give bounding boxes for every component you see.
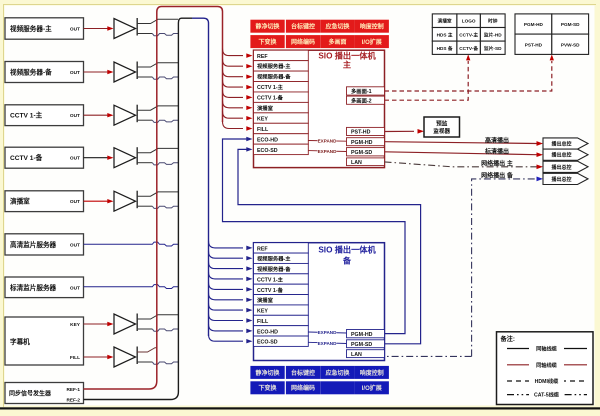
svg-text:视频服务器-主: 视频服务器-主: [10, 24, 52, 33]
svg-text:OUT: OUT: [70, 27, 80, 33]
source box 同步信号发生器: [5, 383, 84, 404]
svg-text:PGM-HD: PGM-HD: [351, 332, 373, 338]
svg-text:I/O扩展: I/O扩展: [362, 38, 382, 46]
svg-text:CCTV 1-备: CCTV 1-备: [257, 286, 284, 294]
svg-text:HDS 备: HDS 备: [437, 45, 453, 52]
legend CAT-5线缆: [507, 394, 587, 396]
main feature cell 应急切换: [320, 20, 354, 33]
backup port FILL: [254, 315, 309, 325]
wire DA3 upper branch to black trunk: [137, 106, 178, 110]
main port KEY: [254, 113, 309, 123]
preview monitor box: [424, 117, 460, 137]
svg-text:网络播出 备: 网络播出 备: [481, 172, 514, 180]
main port PST-HD: [347, 127, 385, 135]
svg-text:LAN: LAN: [351, 160, 362, 166]
master control flag 3 播出总控: [543, 161, 588, 172]
svg-text:网络编码: 网络编码: [291, 384, 315, 392]
main feature cell 网络编码: [286, 35, 320, 48]
svg-text:播出总控: 播出总控: [551, 176, 571, 183]
arrow into DA7: [84, 356, 110, 358]
monitor wall table 2 (PGM/PST): [515, 14, 552, 34]
wire backup PGM-SD to main ECO-SD: [238, 149, 421, 343]
svg-text:KEY: KEY: [257, 309, 268, 315]
arrow into DA2: [84, 71, 110, 73]
svg-text:应急切换: 应急切换: [325, 369, 350, 377]
svg-text:CCTV 1-主: CCTV 1-主: [10, 111, 43, 120]
svg-text:CCTV 1-备: CCTV 1-备: [257, 94, 284, 102]
svg-text:监片-HD: 监片-HD: [484, 31, 502, 38]
distribution amp DA7: [114, 347, 136, 367]
wire DA6 upper branch to black trunk: [137, 315, 178, 319]
distribution amp DA2: [114, 62, 136, 82]
wire DA6 lower branch to black trunk: [137, 328, 152, 330]
wire 标清播出: [385, 152, 537, 155]
svg-text:PGM-SD: PGM-SD: [351, 150, 372, 156]
svg-text:台标键控: 台标键控: [291, 369, 315, 377]
svg-text:EXPAND: EXPAND: [318, 149, 337, 154]
svg-text:EXPAND: EXPAND: [318, 139, 337, 144]
wire fan to backup port row 4: [209, 272, 244, 279]
svg-text:下变换: 下变换: [259, 38, 278, 46]
svg-text:ECO-SD: ECO-SD: [257, 340, 278, 346]
wire DA7 upper branch to red trunk: [137, 348, 157, 352]
wire fan to main port row 1: [223, 49, 244, 56]
wire fan to backup port row 5: [209, 282, 244, 289]
svg-text:主: 主: [343, 60, 351, 70]
wire REF-1 red trunk loop feeding main SIO: [84, 7, 223, 390]
wire fan to backup port row 10: [209, 334, 244, 341]
source box 视频服务器-主: [5, 18, 84, 39]
svg-text:多画面: 多画面: [328, 38, 346, 46]
svg-text:CCTV 1-主: CCTV 1-主: [257, 83, 284, 91]
wire 监片服务器 OUT row: [84, 242, 179, 246]
svg-text:PST-HD: PST-HD: [351, 130, 371, 136]
wire blue trunk feeding backup SIO: [192, 18, 209, 336]
wire fan to main port row 8: [223, 122, 244, 129]
main port PGM-HD: [347, 138, 385, 146]
main port 视频服务器-主: [254, 61, 309, 71]
monitor wall table 1 (sources): [432, 14, 457, 28]
svg-text:监视器: 监视器: [433, 127, 450, 135]
distribution amp DA5: [114, 191, 136, 211]
wire 监片服务器 OUT row: [84, 285, 179, 289]
wire DA2 lower branch to black trunk: [137, 76, 152, 78]
wire DA1 lower branch to black trunk: [137, 33, 152, 35]
svg-text:网络编码: 网络编码: [291, 38, 315, 46]
wire 多画面-2 dashed to source monitor table: [385, 61, 469, 100]
wire fan to main port row 6: [223, 101, 244, 108]
backup port 视频服务器-主: [254, 253, 309, 263]
SIO backup unit box: [254, 243, 385, 361]
backup port ECO-SD: [254, 336, 309, 346]
svg-text:OUT: OUT: [70, 199, 80, 205]
svg-text:PGM-SD: PGM-SD: [351, 342, 372, 348]
svg-text:同轴线缆: 同轴线缆: [536, 345, 558, 353]
legend 同轴线缆 black: [507, 348, 587, 350]
wire 高清播出: [385, 142, 537, 144]
source box 演播室: [5, 191, 84, 212]
backup feature cell 网络编码: [286, 381, 320, 394]
svg-text:I/O扩展: I/O扩展: [362, 384, 382, 392]
svg-text:SIO 播出一体机: SIO 播出一体机: [318, 245, 376, 255]
main port ECO-SD: [254, 144, 309, 154]
distribution amp DA6: [114, 314, 136, 334]
svg-text:网络播出 主: 网络播出 主: [481, 160, 513, 168]
svg-text:视频服务器-主: 视频服务器-主: [257, 255, 291, 263]
svg-text:台标键控: 台标键控: [291, 23, 315, 31]
svg-text:PGM-HD: PGM-HD: [524, 22, 544, 27]
arrow into DA6: [84, 323, 110, 325]
svg-text:播出总控: 播出总控: [551, 141, 571, 148]
distribution amp DA4: [114, 148, 136, 168]
backup feature cell 应急切换: [320, 366, 354, 379]
source box 视频服务器-备: [5, 62, 84, 83]
svg-text:视频服务器-备: 视频服务器-备: [257, 73, 291, 81]
main feature cell 多画面: [320, 35, 354, 48]
svg-text:ECO-SD: ECO-SD: [257, 148, 278, 154]
backup port LAN: [347, 350, 385, 358]
backup port ECO-HD: [254, 326, 309, 336]
wire backup PGM-HD to main ECO-HD: [223, 139, 406, 334]
svg-text:静净切换: 静净切换: [256, 369, 281, 377]
wire 网络播出 备: [385, 179, 537, 357]
wire fan to main port row 7: [223, 111, 244, 118]
backup port PGM-HD: [347, 330, 385, 338]
backup feature cell 台标键控: [286, 366, 320, 379]
svg-text:CCTV-主: CCTV-主: [459, 31, 478, 38]
wire fan to backup port row 6: [209, 293, 244, 300]
svg-text:FILL: FILL: [70, 355, 80, 361]
source box CCTV 1-主: [5, 105, 84, 126]
svg-text:静净切换: 静净切换: [256, 23, 281, 31]
svg-text:演播室: 演播室: [257, 296, 274, 304]
svg-text:HDS 主: HDS 主: [437, 31, 453, 38]
svg-text:EXPAND: EXPAND: [318, 330, 337, 335]
backup port CCTV 1-备: [254, 284, 309, 294]
main feature cell 静净切换: [250, 20, 284, 33]
main port REF: [254, 50, 309, 60]
svg-text:OUT: OUT: [70, 285, 80, 291]
main port CCTV 1-主: [254, 82, 309, 92]
wire fan to main port row 5: [223, 90, 244, 97]
svg-text:OUT: OUT: [70, 156, 80, 162]
svg-text:高清监片服务器: 高清监片服务器: [10, 240, 57, 249]
svg-text:HDMI线缆: HDMI线缆: [535, 377, 559, 385]
wire DA5 upper branch to black trunk: [137, 192, 178, 196]
source box 标清监片服务器: [5, 277, 84, 298]
svg-text:多画面-2: 多画面-2: [351, 96, 372, 104]
wire fan to main port row 2: [223, 59, 244, 66]
svg-text:REF: REF: [257, 54, 268, 60]
main port PGM-SD: [347, 148, 385, 156]
wire fan to backup port row 3: [209, 262, 244, 269]
EXPAND link backup ECO-HD: [308, 332, 346, 333]
EXPAND link main ECO-HD: [308, 140, 346, 143]
svg-text:备注:: 备注:: [500, 335, 515, 343]
svg-text:字幕机: 字幕机: [10, 337, 30, 346]
source box 高清监片服务器: [5, 234, 84, 255]
SIO main unit box: [254, 50, 385, 167]
backup port CCTV 1-主: [254, 274, 309, 284]
arrow into DA5: [84, 200, 110, 202]
svg-text:播出总控: 播出总控: [551, 152, 571, 159]
main feature cell 下变换: [250, 35, 284, 48]
svg-text:响度控制: 响度控制: [360, 23, 384, 31]
arrow into DA4: [84, 157, 110, 159]
svg-text:KEY: KEY: [70, 322, 81, 328]
main port ECO-HD: [254, 134, 309, 144]
wire fan to backup port row 1: [209, 241, 244, 248]
svg-text:FILL: FILL: [257, 127, 269, 133]
svg-text:PVW-SD: PVW-SD: [561, 42, 580, 47]
svg-text:监片-SD: 监片-SD: [484, 45, 502, 52]
main feature cell 台标键控: [286, 20, 320, 33]
wire fan to main port row 3: [223, 70, 244, 77]
backup port 视频服务器-备: [254, 263, 309, 273]
wire DA7 lower branch to black trunk: [137, 361, 152, 363]
svg-text:备: 备: [342, 256, 352, 266]
svg-text:SIO 播出一体机: SIO 播出一体机: [318, 51, 376, 61]
svg-text:PGM-SD: PGM-SD: [561, 22, 580, 27]
backup port PGM-SD: [347, 340, 385, 348]
main port 视频服务器-备: [254, 71, 309, 81]
main port 演播室: [254, 102, 309, 112]
svg-text:同步信号发生器: 同步信号发生器: [9, 389, 52, 397]
svg-text:PST-HD: PST-HD: [525, 42, 543, 47]
svg-text:CAT-5线缆: CAT-5线缆: [534, 391, 560, 399]
main feature cell I/O扩展: [355, 35, 389, 48]
wire PST-HD to preview monitor: [385, 130, 415, 132]
svg-text:CCTV 1-备: CCTV 1-备: [10, 153, 43, 162]
backup port KEY: [254, 305, 309, 315]
backup port 演播室: [254, 295, 309, 305]
svg-text:REF-1: REF-1: [66, 387, 80, 392]
backup port REF: [254, 243, 309, 253]
arrow into DA3: [84, 114, 110, 116]
bottom frame line: [0, 407, 600, 409]
svg-text:OUT: OUT: [70, 70, 80, 76]
svg-text:响度控制: 响度控制: [360, 369, 384, 377]
wire DA5 lower branch to black trunk: [137, 205, 152, 207]
wire fan to backup port row 2: [209, 251, 244, 258]
wire DA1 upper branch to black trunk: [137, 19, 178, 23]
svg-text:视频服务器-备: 视频服务器-备: [10, 68, 52, 77]
main port CCTV 1-备: [254, 92, 309, 102]
svg-text:LAN: LAN: [351, 352, 362, 358]
master control flag 1 播出总控: [543, 138, 588, 149]
svg-text:演播室: 演播室: [438, 18, 452, 25]
svg-text:演播室: 演播室: [10, 197, 30, 206]
master control flag 4 播出总控: [543, 173, 588, 184]
source box 字幕机: [5, 317, 84, 365]
arrow into DA1: [84, 28, 110, 30]
svg-text:PGM-HD: PGM-HD: [351, 140, 373, 146]
svg-text:EXPAND: EXPAND: [318, 341, 337, 346]
svg-text:多画面-1: 多画面-1: [351, 87, 372, 95]
main feature cell 响度控制: [355, 20, 389, 33]
svg-text:ECO-HD: ECO-HD: [257, 137, 278, 143]
wire DA4 upper branch to black trunk: [137, 148, 178, 152]
wire fan to backup port row 9: [209, 324, 244, 331]
svg-text:CCTV-备: CCTV-备: [459, 45, 478, 52]
wire 多画面-1 dashed to PGM monitor table: [385, 61, 552, 91]
backup feature cell 下变换: [250, 381, 284, 394]
svg-text:REF: REF: [257, 246, 268, 252]
wire DA4 lower branch to black trunk: [137, 162, 152, 164]
backup feature cell I/O扩展: [355, 381, 389, 394]
svg-text:视频服务器-主: 视频服务器-主: [257, 62, 291, 70]
main port FILL: [254, 123, 309, 133]
svg-text:FILL: FILL: [257, 319, 269, 325]
svg-text:CCTV 1-主: CCTV 1-主: [257, 275, 284, 283]
backup feature cell 静净切换: [250, 366, 284, 379]
svg-text:预监: 预监: [436, 120, 448, 128]
svg-text:OUT: OUT: [70, 242, 80, 248]
wire DA2 upper branch to black trunk: [137, 63, 178, 67]
wire fan to main port row 4: [223, 80, 244, 87]
wire DA3 lower branch to black trunk: [137, 119, 152, 121]
backup feature cell blank: [320, 381, 354, 394]
svg-text:标清监片服务器: 标清监片服务器: [9, 283, 57, 292]
svg-text:标清播出: 标清播出: [484, 148, 509, 156]
svg-text:演播室: 演播室: [257, 104, 274, 112]
svg-text:同轴线缆: 同轴线缆: [536, 361, 558, 369]
wire 网络播出 主: [385, 162, 537, 167]
legend 同轴线缆 red: [507, 364, 587, 366]
main port 多画面-1: [347, 87, 385, 95]
svg-text:时钟: 时钟: [488, 18, 498, 25]
distribution amp DA1: [114, 19, 136, 39]
svg-text:下变换: 下变换: [259, 384, 278, 392]
wire REF-2 black trunk: [84, 18, 193, 399]
svg-text:ECO-HD: ECO-HD: [257, 329, 278, 335]
wire fan to backup port row 8: [209, 314, 244, 321]
main port 多画面-2: [347, 96, 385, 104]
EXPAND link main ECO-SD: [308, 150, 346, 153]
legend box 备注: [497, 332, 594, 405]
backup feature cell 响度控制: [355, 366, 389, 379]
legend HDMI线缆: [507, 380, 587, 382]
svg-text:视频服务器-备: 视频服务器-备: [257, 265, 291, 273]
svg-text:OUT: OUT: [70, 113, 80, 119]
svg-text:REF-2: REF-2: [66, 398, 80, 403]
distribution amp DA3: [114, 105, 136, 125]
svg-text:KEY: KEY: [257, 116, 268, 122]
svg-text:LOGO: LOGO: [462, 19, 476, 24]
svg-text:应急切换: 应急切换: [325, 23, 350, 31]
svg-text:高清播出: 高清播出: [485, 136, 509, 144]
source box CCTV 1-备: [5, 147, 84, 168]
wire fan to backup port row 7: [209, 303, 244, 310]
svg-text:播出总控: 播出总控: [551, 164, 571, 171]
master control flag 2 播出总控: [543, 149, 588, 160]
EXPAND link backup ECO-SD: [308, 342, 346, 343]
main port LAN: [347, 158, 385, 166]
